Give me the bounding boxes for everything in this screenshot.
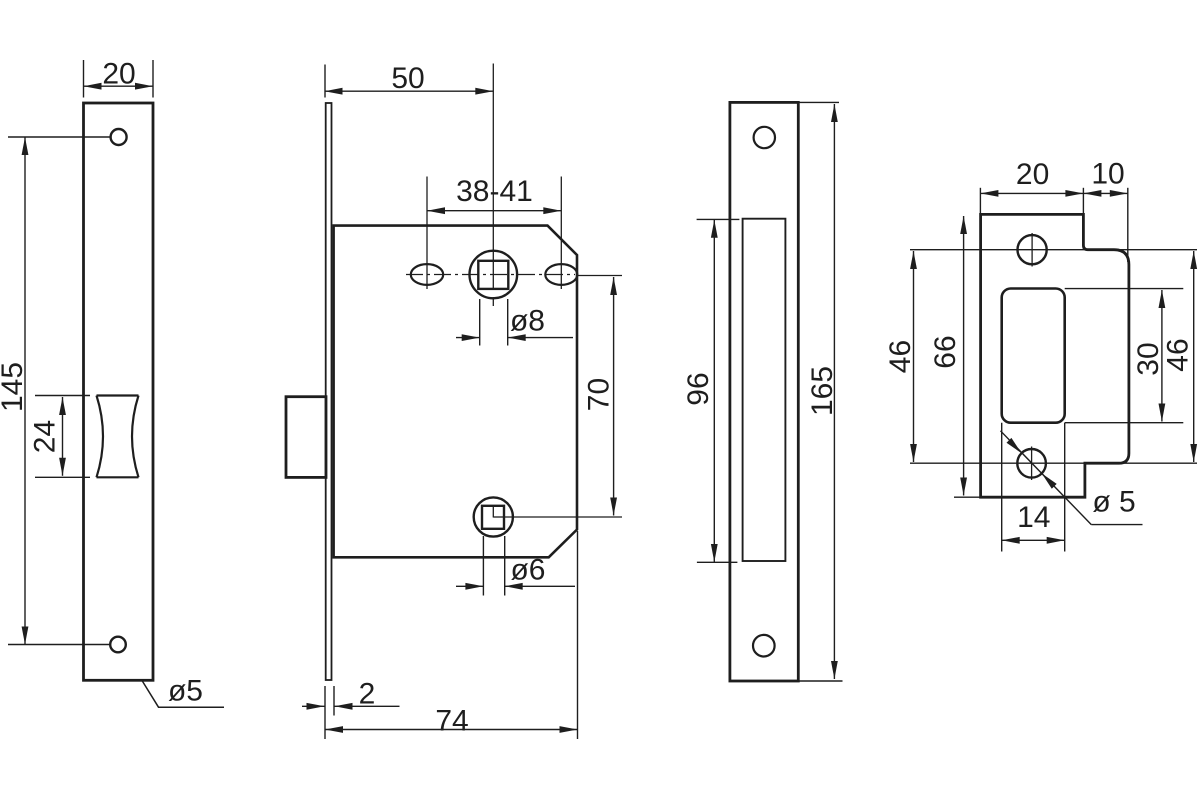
svg-text:96: 96 — [682, 372, 715, 405]
svg-text:165: 165 — [806, 366, 839, 416]
svg-text:14: 14 — [1017, 501, 1050, 534]
svg-text:2: 2 — [359, 678, 376, 711]
svg-text:24: 24 — [29, 420, 62, 453]
svg-text:46: 46 — [884, 340, 917, 373]
svg-text:50: 50 — [391, 62, 424, 95]
svg-text:20: 20 — [1016, 158, 1049, 191]
svg-text:70: 70 — [583, 378, 616, 411]
svg-text:20: 20 — [102, 58, 135, 91]
svg-text:74: 74 — [435, 705, 468, 738]
svg-text:10: 10 — [1091, 158, 1124, 191]
svg-text:145: 145 — [0, 362, 29, 412]
svg-text:ø6: ø6 — [510, 554, 545, 587]
svg-text:30: 30 — [1132, 342, 1165, 375]
svg-text:46: 46 — [1162, 338, 1195, 371]
svg-text:38-41: 38-41 — [456, 175, 533, 208]
svg-text:ø5: ø5 — [168, 675, 203, 708]
svg-text:ø 5: ø 5 — [1092, 486, 1135, 519]
svg-text:ø8: ø8 — [510, 304, 545, 337]
svg-text:66: 66 — [929, 335, 962, 368]
